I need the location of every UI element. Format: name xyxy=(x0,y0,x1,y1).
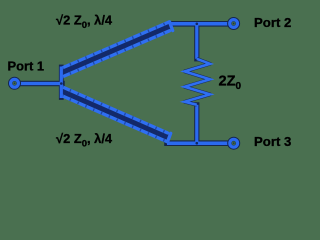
junction dot top node xyxy=(196,23,199,26)
transmission line TL1 (upper) pair lines xyxy=(62,22,173,77)
wire TL2 to port3 (fringe) xyxy=(167,140,228,146)
wire port1 to junction (fringe) xyxy=(20,81,62,86)
junction dot input Y xyxy=(60,82,63,85)
junction bar (fringe) xyxy=(59,67,64,98)
junction dot bottom node xyxy=(196,142,199,145)
resistor R (2Z0) zigzag xyxy=(185,59,210,105)
svg-text:Port 1: Port 1 xyxy=(8,59,45,74)
svg-text:Port 2: Port 2 xyxy=(254,15,291,30)
transmission line TL1 (upper) dark gap core xyxy=(62,26,170,72)
port 1 terminal circle xyxy=(11,79,19,87)
vertical wire top node to resistor xyxy=(195,24,198,59)
wire port1 to junction xyxy=(20,82,62,85)
transmission line TL2 (lower) pair lines xyxy=(62,87,171,142)
wire TL2 to port3 xyxy=(167,141,228,145)
vertical wire resistor to bottom node (fringe) xyxy=(194,105,199,143)
port 3 terminal circle xyxy=(230,139,238,147)
vertical wire top node to resistor (fringe) xyxy=(194,24,199,59)
TL1 right end cap xyxy=(170,22,173,30)
junction bar at input Y xyxy=(60,67,63,99)
dark AA fringe underlay for wires xyxy=(20,24,228,143)
resistor R (2Z0) dark fringe xyxy=(185,59,210,105)
vertex speckle texture on TL1 lines xyxy=(62,22,170,77)
port 2 terminal circle xyxy=(230,20,238,28)
wire TL1 to port2 xyxy=(170,22,229,26)
TL2 right end cap xyxy=(168,133,171,141)
svg-text:Port 3: Port 3 xyxy=(254,134,291,149)
wire TL1 to port2 (fringe) xyxy=(170,21,229,27)
vertex speckle texture on TL2 lines xyxy=(62,87,168,142)
transmission line TL2 (lower) dark gap core xyxy=(62,91,168,137)
vertical wire resistor to bottom node xyxy=(195,105,198,143)
